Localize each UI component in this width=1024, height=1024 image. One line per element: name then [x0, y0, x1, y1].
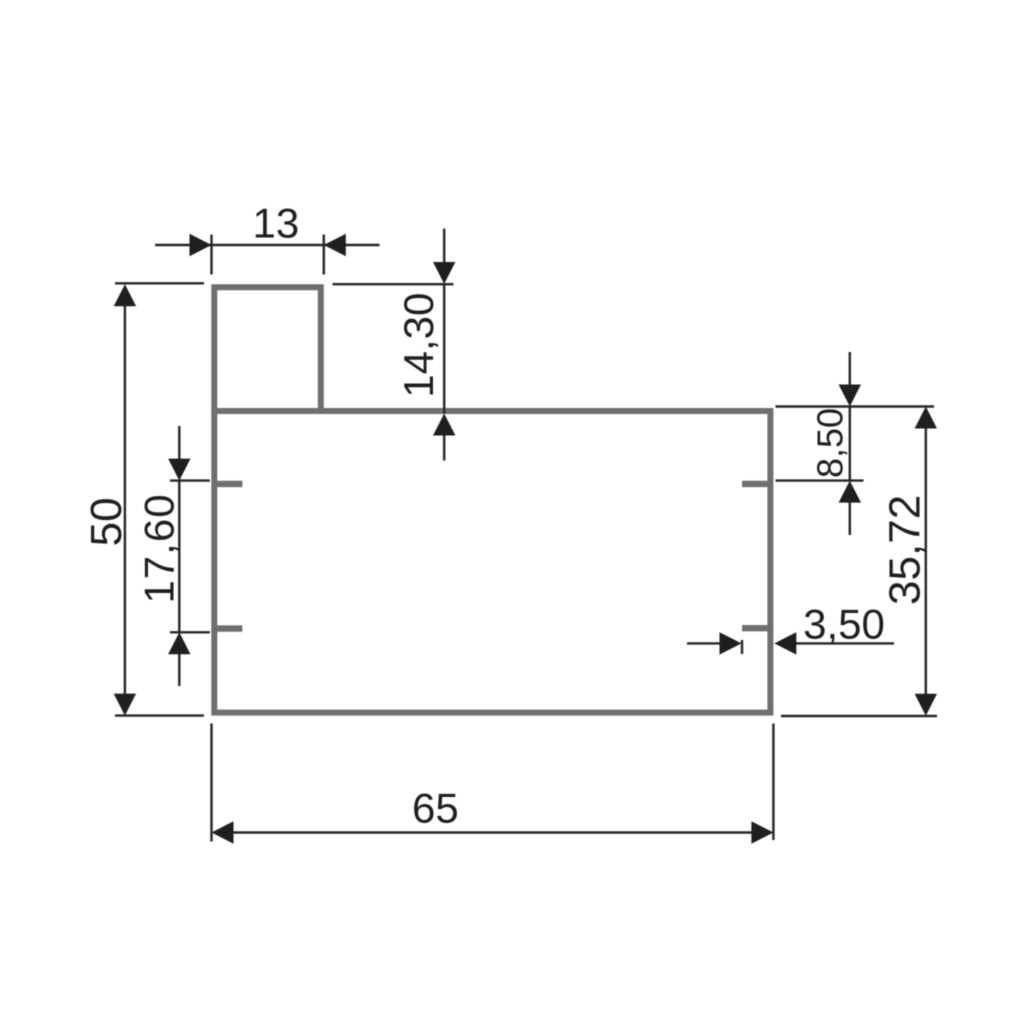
svg-text:3,50: 3,50: [803, 601, 885, 648]
svg-text:17,60: 17,60: [136, 493, 183, 603]
svg-text:65: 65: [412, 785, 459, 832]
svg-text:50: 50: [82, 497, 131, 546]
svg-text:8,50: 8,50: [810, 408, 851, 478]
svg-text:14,30: 14,30: [395, 293, 442, 398]
svg-text:13: 13: [253, 200, 300, 247]
svg-text:35,72: 35,72: [881, 495, 930, 605]
